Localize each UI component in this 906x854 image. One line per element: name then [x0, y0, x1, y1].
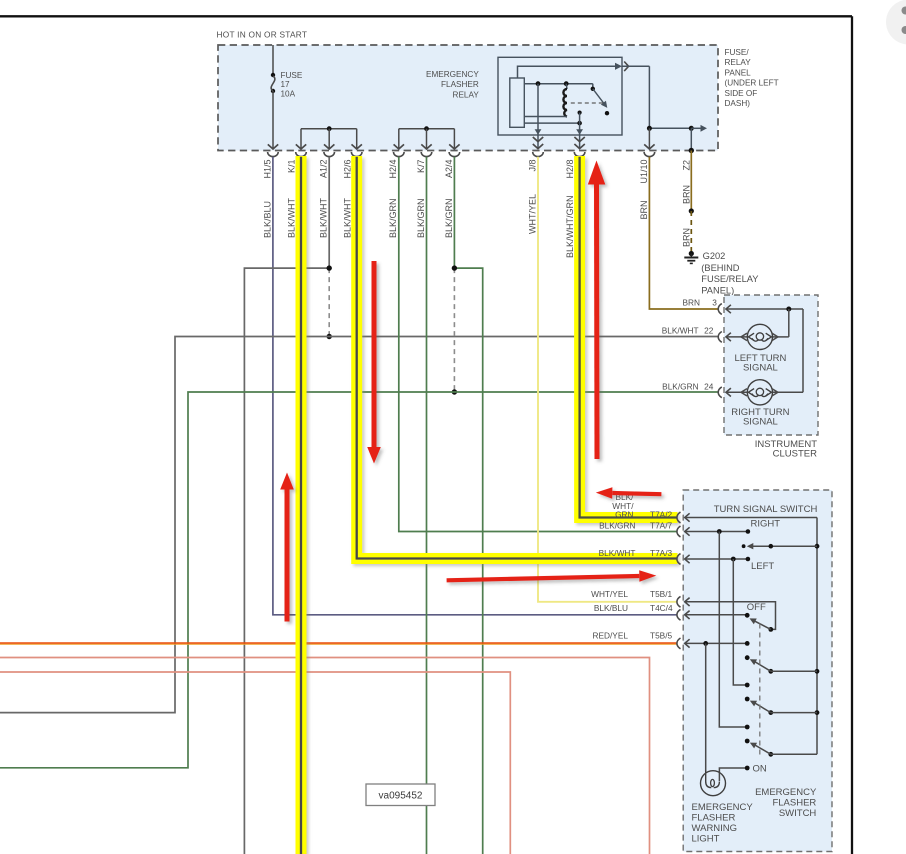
svg-text:BLK/WHT: BLK/WHT [319, 197, 329, 238]
svg-text:Z2: Z2 [682, 160, 692, 171]
svg-text:T5B/1: T5B/1 [650, 589, 673, 599]
svg-text:WHT/YEL: WHT/YEL [527, 194, 537, 234]
svg-text:RIGHT: RIGHT [751, 519, 781, 530]
svg-text:RELAY: RELAY [725, 58, 752, 67]
svg-text:SIDE OF: SIDE OF [725, 89, 758, 98]
svg-text:PANEL): PANEL) [701, 286, 734, 296]
svg-text:H1/5: H1/5 [262, 160, 272, 179]
svg-text:BLK/BLU: BLK/BLU [262, 201, 272, 238]
svg-text:BLK/WHT: BLK/WHT [662, 326, 699, 336]
svg-text:FLASHER: FLASHER [692, 813, 736, 824]
svg-text:OFF: OFF [747, 602, 766, 613]
svg-text:T4C/4: T4C/4 [650, 603, 673, 613]
svg-text:RED/YEL: RED/YEL [592, 631, 628, 641]
svg-text:H2/6: H2/6 [342, 160, 352, 179]
svg-text:BRN: BRN [639, 200, 649, 219]
svg-text:17: 17 [281, 80, 291, 89]
svg-text:BLK/WHT: BLK/WHT [287, 197, 297, 238]
svg-text:ON: ON [753, 764, 767, 775]
svg-text:DASH): DASH) [725, 99, 751, 108]
svg-text:G202: G202 [703, 251, 726, 261]
svg-text:BLK/GRN: BLK/GRN [662, 382, 698, 392]
svg-text:BLK/GRN: BLK/GRN [599, 521, 635, 531]
svg-text:BLK/GRN: BLK/GRN [416, 198, 426, 238]
svg-text:WARNING: WARNING [692, 823, 738, 834]
svg-text:EMERGENCY: EMERGENCY [426, 70, 479, 79]
svg-text:PANEL: PANEL [725, 68, 752, 77]
svg-text:GRN: GRN [615, 510, 633, 520]
svg-text:H2/8: H2/8 [565, 160, 575, 179]
svg-text:FUSE/: FUSE/ [725, 48, 750, 57]
svg-text:BLK/WHT: BLK/WHT [342, 197, 352, 238]
svg-text:SIGNAL: SIGNAL [743, 417, 778, 428]
svg-text:va095452: va095452 [379, 791, 423, 802]
svg-text:22: 22 [704, 326, 714, 336]
svg-text:LEFT: LEFT [751, 561, 774, 572]
svg-text:T7A/7: T7A/7 [650, 521, 673, 531]
svg-text:A1/2: A1/2 [319, 160, 329, 179]
svg-text:BRN: BRN [682, 185, 692, 204]
svg-text:FUSE/RELAY: FUSE/RELAY [701, 274, 758, 284]
svg-text:T5B/5: T5B/5 [650, 631, 673, 641]
svg-text:BLK/WHT: BLK/WHT [599, 548, 636, 558]
svg-text:A2/4: A2/4 [444, 160, 454, 179]
svg-text:EMERGENCY: EMERGENCY [755, 787, 817, 798]
svg-text:T7A/3: T7A/3 [650, 548, 673, 558]
svg-text:TURN SIGNAL SWITCH: TURN SIGNAL SWITCH [714, 504, 818, 515]
svg-text:EMERGENCY: EMERGENCY [692, 802, 754, 813]
svg-text:10A: 10A [281, 89, 296, 98]
svg-text:FLASHER: FLASHER [441, 80, 479, 89]
svg-text:3: 3 [712, 298, 717, 308]
svg-text:24: 24 [704, 382, 714, 392]
svg-text:BRN: BRN [682, 228, 692, 247]
svg-text:WHT/YEL: WHT/YEL [591, 589, 628, 599]
svg-text:FLASHER: FLASHER [772, 798, 816, 809]
svg-text:SWITCH: SWITCH [779, 808, 817, 819]
svg-text:BLK/BLU: BLK/BLU [594, 603, 628, 613]
svg-text:(UNDER LEFT: (UNDER LEFT [725, 79, 779, 88]
svg-text:HOT IN ON OR START: HOT IN ON OR START [217, 29, 308, 39]
svg-text:RELAY: RELAY [453, 90, 480, 99]
svg-text:CLUSTER: CLUSTER [773, 449, 817, 460]
svg-text:SIGNAL: SIGNAL [743, 363, 778, 374]
svg-text:K/1: K/1 [287, 160, 297, 174]
svg-text:H2/4: H2/4 [388, 160, 398, 179]
svg-text:BRN: BRN [682, 298, 700, 308]
svg-text:(BEHIND: (BEHIND [701, 263, 740, 273]
svg-text:LIGHT: LIGHT [692, 834, 720, 845]
svg-text:T7A/2: T7A/2 [650, 510, 673, 520]
svg-text:BLK/WHT/GRN: BLK/WHT/GRN [565, 195, 575, 258]
svg-text:BLK/GRN: BLK/GRN [388, 198, 398, 238]
svg-text:K/7: K/7 [416, 160, 426, 174]
svg-text:FUSE: FUSE [281, 71, 303, 80]
svg-text:BLK/GRN: BLK/GRN [444, 198, 454, 238]
svg-text:U1/10: U1/10 [639, 160, 649, 184]
svg-text:J/8: J/8 [527, 160, 537, 172]
